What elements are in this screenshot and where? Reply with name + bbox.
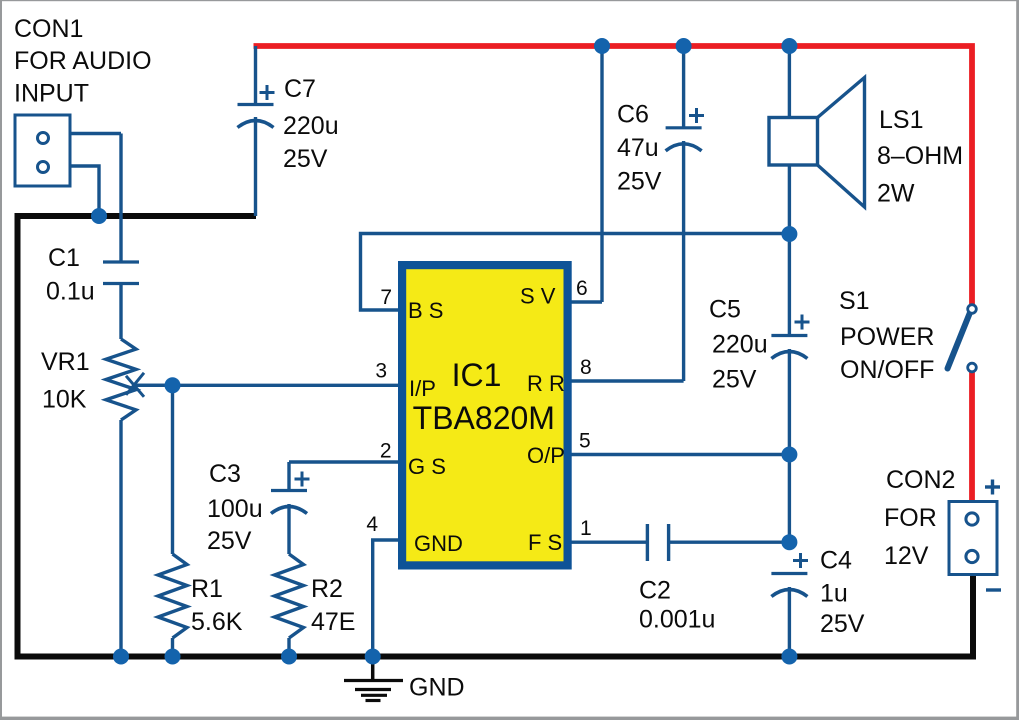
svg-text:220u: 220u <box>283 112 339 140</box>
svg-text:47u: 47u <box>617 134 659 162</box>
node: C2/C4 junction <box>781 534 797 550</box>
wire: C5 to output node <box>788 349 791 543</box>
svg-text:I/P: I/P <box>409 376 436 401</box>
svg-text:FOR AUDIO: FOR AUDIO <box>14 47 152 75</box>
wire: R2 to ground <box>287 638 290 657</box>
svg-text:GND: GND <box>409 674 465 702</box>
svg-text:C2: C2 <box>639 577 671 605</box>
svg-text:1: 1 <box>580 517 592 540</box>
wire: C6 bottom lead to pin 8 <box>682 141 685 381</box>
potentiometer VR1 <box>106 339 136 420</box>
op-amp IC1 TBA820M body <box>402 265 567 565</box>
svg-text:B S: B S <box>408 298 443 323</box>
wire: LS1 top lead <box>788 46 791 118</box>
svg-text:47E: 47E <box>311 608 355 636</box>
svg-text:C4: C4 <box>820 547 852 575</box>
svg-text:5.6K: 5.6K <box>191 608 243 636</box>
CON2 minus terminal mark <box>986 588 1001 591</box>
svg-text:VR1: VR1 <box>41 348 90 376</box>
wire: pin 6 stub <box>567 300 602 303</box>
wire: C7 top lead <box>254 46 257 105</box>
svg-text:S V: S V <box>520 284 556 309</box>
wire: red +12V rail top and right <box>254 46 973 305</box>
wire: C2 to node <box>669 541 790 544</box>
svg-text:ON/OFF: ON/OFF <box>840 356 934 384</box>
svg-text:2W: 2W <box>877 180 915 208</box>
CON2 plus terminal mark <box>985 485 1000 488</box>
svg-text:25V: 25V <box>712 366 757 394</box>
svg-text:FOR: FOR <box>884 504 937 532</box>
node: CON1 ground junction <box>91 208 107 224</box>
capacitor C2 <box>646 524 649 561</box>
svg-text:4: 4 <box>366 513 378 536</box>
node: ground junction R2 <box>281 649 297 665</box>
svg-text:CON2: CON2 <box>886 466 955 494</box>
svg-text:TBA820M: TBA820M <box>413 400 555 436</box>
svg-text:25V: 25V <box>207 527 252 555</box>
wire: red from switch to CON2 <box>969 373 975 503</box>
wire: black input ground wire and left wall <box>18 216 257 657</box>
svg-text:6: 6 <box>576 277 588 300</box>
connector CON2 <box>949 502 997 575</box>
wire: pin2 drop to C3 <box>287 462 290 491</box>
svg-text:1u: 1u <box>820 580 848 608</box>
wire: C1 to VR1 <box>119 284 122 340</box>
svg-text:CON1: CON1 <box>14 15 83 43</box>
node: ground junction C4 <box>781 649 797 665</box>
svg-text:0.001u: 0.001u <box>639 606 715 634</box>
wire: C6 top lead <box>682 46 685 128</box>
wire: pin 8 stub <box>567 379 684 382</box>
svg-text:25V: 25V <box>820 610 865 638</box>
svg-text:25V: 25V <box>283 145 328 173</box>
connector CON1 <box>15 115 70 186</box>
wire: pin 1 to C2 <box>567 541 647 544</box>
node: LS1/C5/bootstrap junction <box>781 226 797 242</box>
svg-text:0.1u: 0.1u <box>46 278 95 306</box>
node: VR1 wiper/R1 junction <box>165 377 181 393</box>
VR1 wiper arrow <box>136 384 173 387</box>
wire: pin 5 output <box>567 453 789 456</box>
wire: pin 4 GND to ground bus <box>373 540 403 657</box>
wire: supply drop to pin 6 <box>600 46 603 302</box>
svg-text:C6: C6 <box>617 101 649 129</box>
switch S1 <box>948 313 971 369</box>
wire: signal drop to C1 <box>119 134 122 263</box>
svg-text:10K: 10K <box>42 386 87 414</box>
svg-text:R R: R R <box>527 371 565 396</box>
svg-text:C5: C5 <box>709 296 741 324</box>
capacitor C3 <box>271 489 307 492</box>
svg-text:220u: 220u <box>712 331 768 359</box>
svg-text:3: 3 <box>375 360 387 383</box>
svg-text:O/P: O/P <box>527 443 565 468</box>
svg-text:R2: R2 <box>311 575 343 603</box>
svg-text:12V: 12V <box>884 542 929 570</box>
svg-text:S1: S1 <box>839 287 870 315</box>
svg-text:POWER: POWER <box>840 323 934 351</box>
resistor R2 <box>275 554 304 638</box>
svg-text:8–OHM: 8–OHM <box>877 142 963 170</box>
svg-text:INPUT: INPUT <box>14 80 89 108</box>
svg-text:7: 7 <box>380 286 392 309</box>
svg-text:G S: G S <box>408 454 446 479</box>
svg-text:F S: F S <box>528 530 562 555</box>
resistor R1 <box>158 554 187 638</box>
svg-text:GND: GND <box>414 531 463 556</box>
svg-text:R1: R1 <box>191 575 223 603</box>
wire: R1 to ground <box>171 638 174 657</box>
node: ground junction VR1 <box>113 649 129 665</box>
capacitor C5 <box>771 334 807 337</box>
node: ground junction R1 <box>165 649 181 665</box>
svg-text:C1: C1 <box>48 244 80 272</box>
wire: VR1 wiper to pin 3 <box>132 384 403 387</box>
svg-text:25V: 25V <box>617 168 662 196</box>
wire: CON1 pin2 to ground bus <box>70 166 99 214</box>
node: output junction <box>781 447 797 463</box>
node: rail junction at pin6 drop <box>594 38 610 54</box>
node: rail junction at LS1 <box>781 38 797 54</box>
wire: black ground bus bottom <box>15 572 974 657</box>
speaker LS1 <box>769 118 818 166</box>
svg-text:2: 2 <box>380 440 392 463</box>
svg-text:LS1: LS1 <box>879 106 923 134</box>
wire: VR1 to ground <box>119 420 122 657</box>
node: rail junction at C6 <box>676 38 692 54</box>
svg-text:IC1: IC1 <box>452 357 502 393</box>
wire: node to R1 <box>171 385 174 554</box>
ground symbol <box>371 657 375 681</box>
wire: C3 to R2 <box>287 504 290 554</box>
capacitor C7 <box>238 103 274 106</box>
wire: CON1 pin1 to signal node <box>70 132 121 135</box>
node: ground junction IC <box>365 649 381 665</box>
svg-text:5: 5 <box>579 430 591 453</box>
svg-text:C3: C3 <box>209 460 241 488</box>
capacitor C4 <box>771 572 807 575</box>
svg-text:100u: 100u <box>207 495 263 523</box>
svg-text:8: 8 <box>580 356 592 379</box>
capacitor C1 <box>103 260 139 263</box>
capacitor C6 <box>666 126 702 129</box>
svg-text:C7: C7 <box>284 75 316 103</box>
wire: LS1 bottom lead <box>788 165 791 236</box>
wire: C7 bottom lead <box>254 117 257 216</box>
wire: C4 to ground <box>788 587 791 657</box>
wire: pin 7 bootstrap loop <box>361 234 790 311</box>
wire: node to C5 <box>788 234 791 336</box>
wire: pin 2 stub <box>289 460 403 463</box>
